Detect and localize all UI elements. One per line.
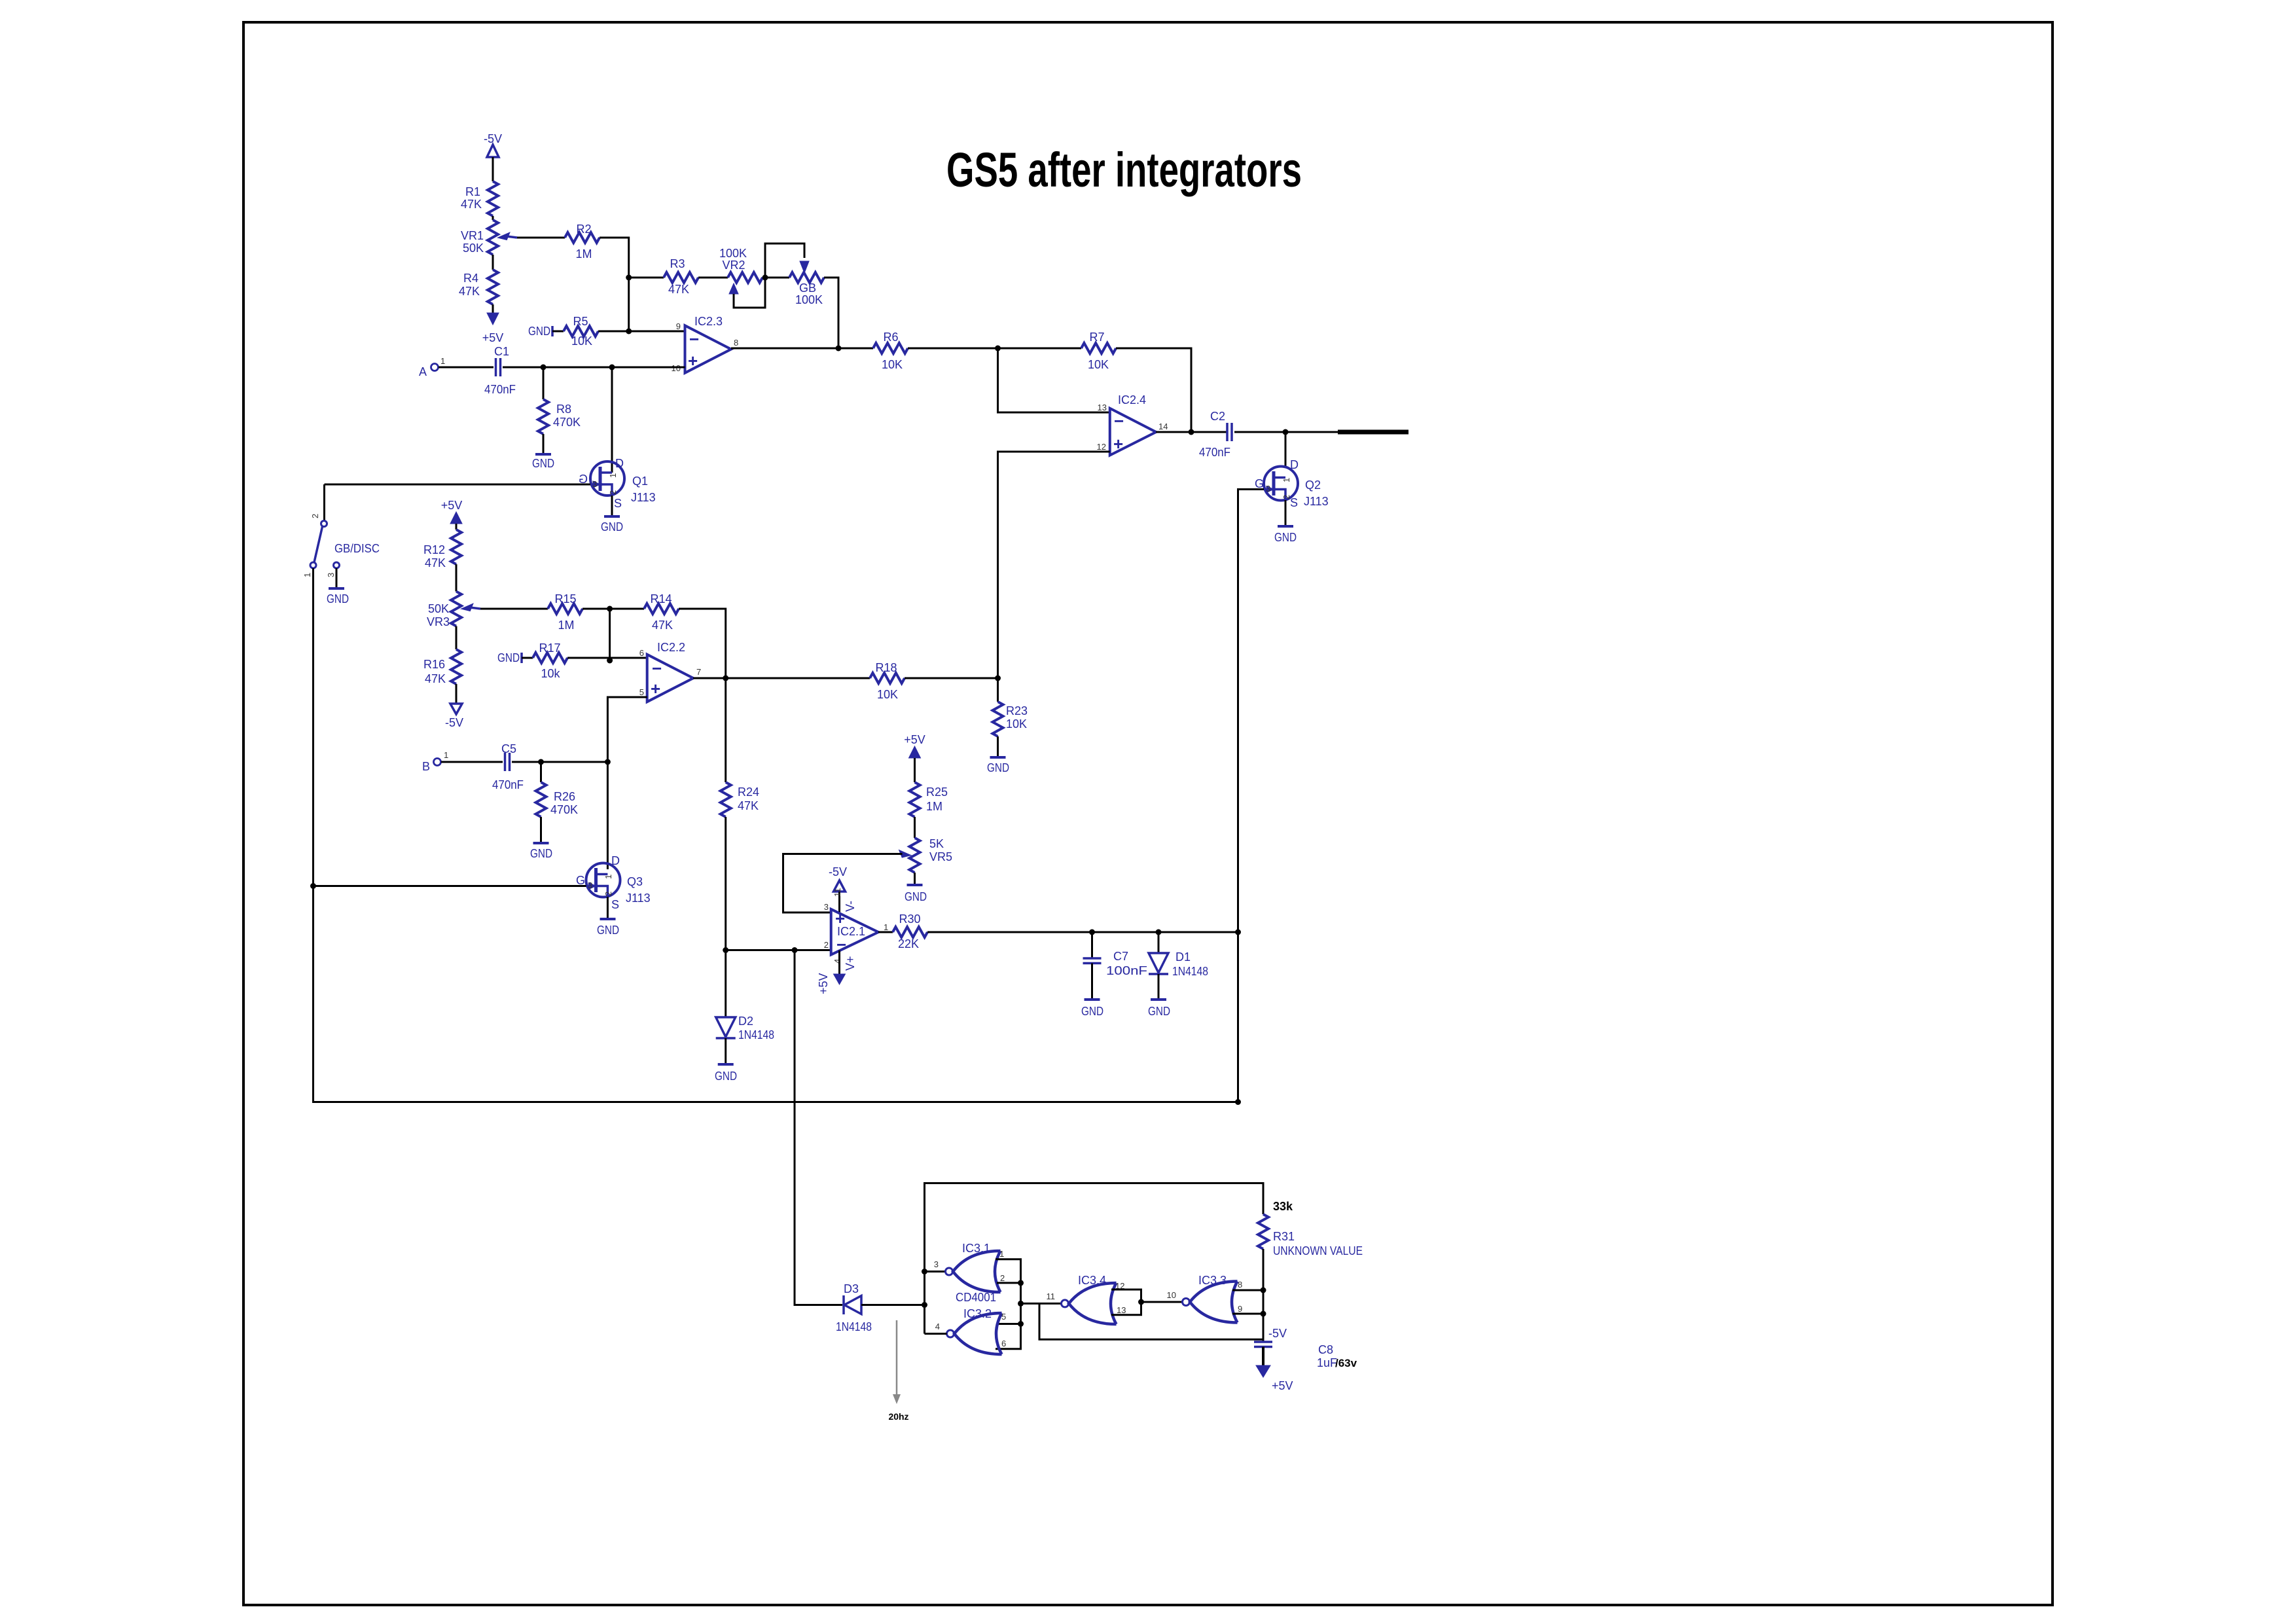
svg-text:4: 4 [935,1322,940,1331]
ground tick for R5 [528,325,552,338]
wire R18 to node [905,677,998,679]
potentiometer VR3 [427,592,480,629]
svg-text:14: 14 [1158,422,1168,431]
wire R24 down to pin2 row [725,817,726,950]
svg-text:GND: GND [601,520,623,533]
pin 11 V- labels [833,888,857,912]
svg-text:VR1: VR1 [461,229,484,242]
nor gate IC3.3 [1167,1274,1243,1323]
node pin9 junction [626,329,632,334]
wire R7 to pin14 node [1116,348,1191,432]
wire tie to IC3.4 input bubble [1021,1303,1062,1305]
svg-text:2: 2 [608,490,618,495]
svg-text:R3: R3 [670,257,685,270]
svg-text:47K: 47K [652,619,673,632]
svg-text:GB/DISC: GB/DISC [334,542,380,555]
svg-text:R6: R6 [883,331,898,344]
svg-text:50K: 50K [428,602,449,615]
svg-text:GS5 after integrators: GS5 after integrators [946,143,1302,197]
svg-text:C7: C7 [1113,950,1128,963]
op-amp IC2.4 [1110,393,1157,456]
wire IC3.1 input bracket [996,1259,1021,1349]
nor gate IC3.1 [934,1242,1005,1292]
svg-text:47K: 47K [738,799,759,812]
wire thick output stub [1338,430,1408,435]
wire R12 to VR3 [456,564,457,592]
ground below C7 [1081,1000,1103,1018]
svg-text:470nF: 470nF [1199,446,1230,459]
node C7 [1089,929,1095,935]
svg-text:7: 7 [696,667,701,677]
svg-text:R12: R12 [423,543,445,556]
wire Q2 source to GND [1285,500,1287,526]
node R30/Q2 gate rail [1235,929,1241,935]
wire R6 to R7 node [908,348,1081,350]
ground below VR5 [905,885,927,903]
svg-text:Q1: Q1 [632,475,648,488]
svg-text:GND: GND [497,651,520,664]
svg-text:D3: D3 [844,1282,859,1295]
svg-text:−: − [1114,411,1124,431]
wire C2 to output [1234,431,1338,433]
wire pin13 branch [998,348,1110,412]
annotation arrow 20hz [888,1320,908,1422]
svg-text:1N4148: 1N4148 [836,1320,872,1333]
ground below Q2 [1274,526,1297,544]
wire gate output rail (to top rail) [925,1183,1264,1334]
svg-text:9: 9 [676,321,681,331]
wire R14 to IC2.2 output node [679,609,726,678]
svg-text:R24: R24 [738,785,759,799]
svg-text:VR3: VR3 [427,615,450,628]
ground below R8 [532,454,554,470]
power -5V below R16 [445,704,463,729]
svg-text:D: D [1290,458,1299,471]
wire IC3.1 pin2 stub [997,1282,1021,1284]
ground below R23 [987,757,1009,774]
svg-text:J113: J113 [631,491,656,504]
capacitor C5 [492,742,524,791]
wire vertical to R3 [629,277,664,279]
svg-text:3: 3 [1266,484,1270,494]
resistor R31 [1258,1200,1363,1257]
capacitor C2 [1199,410,1232,459]
svg-text:R15: R15 [554,592,576,605]
svg-text:IC2.4: IC2.4 [1118,393,1146,406]
svg-text:C2: C2 [1210,410,1225,423]
svg-text:V+: V+ [844,956,857,971]
port B [422,750,448,773]
wire R16 to -5V [456,684,457,704]
svg-text:IC2.1: IC2.1 [837,925,865,938]
svg-text:5: 5 [1001,1312,1006,1322]
wire node to R26 [540,762,542,782]
svg-text:50K: 50K [463,242,484,255]
svg-text:+5V: +5V [817,973,830,994]
op-amp IC2.3 [685,315,732,373]
capacitor C7 [1083,950,1148,977]
wire IC3.3 pin8 stub [1232,1290,1263,1291]
svg-text:V-: V- [844,901,857,912]
ground below D2 [715,1064,737,1083]
svg-text:S: S [614,497,622,510]
svg-text:+: + [1113,434,1123,454]
svg-text:+: + [688,351,698,370]
wire IC2.1 output to R30 [878,931,893,933]
svg-text:10K: 10K [877,688,898,701]
node IC2.2 out [723,676,728,681]
node R18/R23 [995,676,1001,681]
ground below D1 [1148,1000,1170,1018]
wire pin2 row [726,949,831,951]
node Q3 gate / left rail [310,883,316,889]
node pin5 tie [1018,1321,1024,1327]
svg-text:11: 11 [833,888,842,897]
svg-text:470K: 470K [550,803,578,816]
svg-text:1N4148: 1N4148 [738,1028,774,1041]
svg-text:11: 11 [1047,1291,1056,1301]
wire IC2.3 output row [731,348,873,350]
svg-text:J113: J113 [626,892,651,905]
diode D2 [716,1015,774,1041]
node D1 [1156,929,1162,935]
power +5V (below R4, arrow down) [482,313,504,344]
wire +5V to R12 [456,524,457,530]
border frame [243,22,2053,1605]
svg-text:470nF: 470nF [484,383,516,396]
svg-text:+5V: +5V [441,499,463,512]
svg-text:1: 1 [603,875,613,879]
node pin6 junction [607,658,613,664]
wire Q2 drain [1285,432,1287,468]
resistor R7 [1081,331,1116,371]
svg-text:1: 1 [444,750,448,760]
svg-text:5: 5 [639,687,644,697]
node R15/R14 [607,606,613,612]
svg-text:-5V: -5V [829,865,847,878]
wire D3 branch from pin2 node [795,950,842,1305]
wire VR1 to R4 [492,255,494,270]
svg-text:IC3.4: IC3.4 [1078,1274,1106,1287]
node VR2 right junction [762,275,768,281]
svg-text:R23: R23 [1006,704,1028,717]
wire C5 to Q3 drain column [512,761,607,763]
svg-text:12: 12 [1097,442,1106,452]
wire R8 to GND [543,434,545,454]
node pin9 [1261,1311,1266,1317]
svg-text:9: 9 [1238,1304,1242,1314]
wire IC3.4 input bracket [1111,1290,1141,1315]
svg-text:2: 2 [1282,495,1291,499]
wire switch pin3 to GND [336,568,338,588]
resistor R14 [644,592,679,632]
svg-text:VR5: VR5 [929,850,952,863]
ground below switch [327,588,349,605]
wire D1 to GND [1158,974,1160,1000]
svg-text:R17: R17 [539,641,560,655]
svg-text:8: 8 [734,338,738,348]
wire Q2 gate [1238,490,1265,1102]
node R24/pin2 [723,947,728,953]
ground below Q1 [601,516,623,533]
svg-text:1: 1 [302,573,312,577]
wire node to R23 [997,678,999,702]
svg-text:10: 10 [1167,1290,1176,1300]
svg-text:1N4148: 1N4148 [1172,965,1208,978]
resistor R15 [548,592,583,632]
wire R15 to node [583,608,644,610]
svg-text:Q2: Q2 [1305,478,1321,492]
svg-text:R1: R1 [465,185,480,198]
wire node down to R17 row [609,609,611,660]
wire C7 stub [1091,932,1093,958]
wire IC3.2 pin5 stub [997,1323,1021,1325]
svg-text:S: S [611,898,619,911]
resistor R3 [664,257,698,296]
svg-text:+5V: +5V [482,331,504,344]
wire C8 to +5V [1262,1347,1265,1366]
nor gate IC3.4 [1047,1274,1126,1324]
svg-text:10K: 10K [571,334,592,348]
svg-text:1: 1 [608,473,618,478]
svg-text:IC3.3: IC3.3 [1198,1274,1227,1287]
wire D1 stub [1158,932,1160,953]
svg-text:GND: GND [327,592,349,605]
node C2/Q2 [1283,429,1289,435]
svg-text:R5: R5 [573,315,588,328]
wire R23 to GND [997,736,999,757]
wire Q1 source to GND [611,496,613,516]
transistor Q1 [579,457,656,510]
svg-text:10K: 10K [882,358,903,371]
switch GB/DISC [302,514,380,577]
svg-text:1: 1 [1282,478,1291,482]
wire R30 output row [927,931,1238,933]
wire gate row down to switch pin2 [323,484,325,520]
svg-text:2: 2 [310,514,320,518]
svg-text:GND: GND [532,457,554,470]
resistor R12 [423,530,461,569]
pin 4 V+ labels [833,956,857,971]
wire R5 to pin9 node [598,331,685,333]
resistor R1 [461,181,498,216]
wire loop above GB [765,244,804,278]
node A/R8 [541,365,547,370]
svg-text:−: − [652,659,662,678]
svg-text:GB: GB [799,281,816,295]
power +5V above R25 [904,733,925,758]
wire D2 to GND [725,1038,726,1064]
ground below R26 [530,843,552,860]
wire Q3 gate row [313,885,586,887]
power +5V below C8 [1256,1365,1293,1392]
potentiometer VR5 [900,837,953,873]
potentiometer GB [789,261,824,306]
wire node to R8 [543,367,545,399]
svg-text:-5V: -5V [1268,1327,1287,1340]
svg-text:D: D [611,854,620,867]
svg-text:100nF: 100nF [1106,964,1147,977]
wire R25 to VR5 [914,817,916,838]
wire B to C5 [441,761,503,763]
svg-text:47K: 47K [459,285,480,298]
node B/Q3 [605,759,611,765]
svg-text:3: 3 [824,902,829,912]
resistor R16 [423,649,461,685]
svg-text:R26: R26 [554,790,575,803]
svg-text:R7: R7 [1089,331,1104,344]
transistor Q2 [1255,458,1329,509]
svg-text:22K: 22K [898,937,919,950]
svg-text:3: 3 [588,880,592,890]
svg-text:13: 13 [1098,403,1107,412]
node A/Q1 [609,365,615,370]
svg-text:100K: 100K [795,293,823,306]
wire GND tick to R5 [552,331,564,333]
wire VR3 wiper to R15 [480,608,548,610]
power +5V below IC2.1 [817,973,846,994]
svg-text:B: B [422,760,430,773]
svg-text:100K: 100K [719,247,747,260]
resistor R8 [538,399,581,434]
resistor R18 [870,661,905,701]
svg-text:C8: C8 [1318,1343,1333,1356]
svg-text:6: 6 [1001,1339,1006,1348]
svg-text:10K: 10K [1006,717,1027,731]
potentiometer VR1 [461,220,517,255]
svg-text:13: 13 [1117,1305,1126,1315]
svg-text:R14: R14 [650,592,672,605]
node pin8 [1261,1288,1266,1293]
power -5V (top of R1) [484,132,502,157]
node R7/IC2.4 branch [995,346,1001,352]
resistor R24 [721,782,759,817]
svg-text:4: 4 [833,959,842,964]
node B/R26 [538,759,544,765]
wire D2 stub [725,950,726,1018]
svg-text:1: 1 [999,1249,1004,1259]
wire IC2.2 out node down to R24 [725,678,726,782]
wire tie to IC3.3 bubble [1141,1301,1183,1303]
svg-text:R25: R25 [926,785,948,799]
node pin2/D3 branch [792,947,798,953]
svg-text:1M: 1M [558,619,574,632]
node IC3.4 tie [1138,1299,1144,1305]
nor gate IC3.2 [935,1307,1006,1354]
wire Q1 gate row [325,484,591,486]
svg-text:GND: GND [597,924,619,937]
svg-text:+: + [651,679,660,698]
resistor R26 [536,782,579,817]
resistor R30 [893,912,927,950]
resistor R5 [564,315,598,348]
svg-text:47K: 47K [668,283,689,296]
svg-text:1: 1 [884,922,888,932]
wire C1 to pin10 [503,367,685,369]
wire IC3.2 output stub [925,1333,947,1335]
svg-text:R8: R8 [556,403,571,416]
potentiometer VR2 [719,247,762,294]
svg-text:GND: GND [528,325,550,338]
svg-text:CD4001: CD4001 [956,1291,996,1304]
svg-text:+5V: +5V [904,733,925,746]
svg-text:470nF: 470nF [492,778,524,791]
svg-text:R16: R16 [423,658,445,671]
svg-text:47K: 47K [461,198,482,211]
node R3 tee [626,275,632,281]
wire R2 to vertical [600,238,629,331]
svg-text:R4: R4 [463,272,478,285]
power -5V above IC2.1 [829,865,847,892]
wire R3 to VR2 [698,277,728,279]
svg-text:D1: D1 [1175,950,1191,964]
svg-text:2: 2 [603,892,613,896]
svg-text:8: 8 [1238,1280,1242,1290]
wire V- pin [838,892,840,914]
node D3/gate outputs [922,1302,927,1308]
svg-text:/63v: /63v [1335,1357,1357,1369]
node pin14/C2 [1189,429,1194,435]
svg-text:10K: 10K [1088,358,1109,371]
svg-text:3: 3 [326,573,336,577]
svg-text:UNKNOWN VALUE: UNKNOWN VALUE [1273,1244,1363,1257]
wire C7 to GND [1091,964,1093,1000]
svg-text:10k: 10k [541,667,560,680]
svg-text:VR2: VR2 [722,259,745,272]
wire V+ pin [838,950,840,974]
svg-text:20hz: 20hz [888,1411,908,1422]
wire IC3.1 output stub [925,1271,946,1272]
resistor R17 [533,641,567,680]
diode D3 [836,1282,872,1333]
svg-text:1uF: 1uF [1317,1356,1337,1369]
node GB/output [836,346,842,352]
wire VR5 to GND [914,873,916,885]
svg-text:D: D [615,457,624,470]
node pin11 tie [1018,1301,1024,1307]
wire R1 to VR1 [492,216,494,220]
svg-text:470K: 470K [553,416,581,429]
wire R17 to pin6 [567,657,647,659]
wire -5V to R1 [492,157,494,181]
svg-text:3: 3 [934,1259,939,1269]
transistor Q3 [576,854,651,911]
wire GND tick to R17 [522,657,533,659]
op-amp IC2.1 [831,909,878,955]
svg-text:1M: 1M [575,247,592,261]
svg-text:1M: 1M [926,800,942,813]
wire GB right lead down to output row [824,278,838,348]
svg-text:3: 3 [592,479,597,489]
resistor R6 [873,331,908,371]
ground below Q3 [597,919,619,937]
ground tick for R17 [497,651,522,664]
svg-text:R31: R31 [1273,1230,1295,1243]
wire R31 down through pins to C8 [1263,1249,1265,1342]
svg-text:GND: GND [1148,1005,1170,1018]
resistor R25 [910,782,948,817]
port A [419,356,445,378]
svg-text:D2: D2 [738,1015,753,1028]
op-amp IC2.2 [647,641,693,702]
power +5V above R12 [441,499,463,524]
svg-text:33k: 33k [1273,1200,1293,1213]
svg-text:GND: GND [1274,531,1297,544]
svg-text:-5V: -5V [445,716,463,729]
wire D3 to gates input node [861,1304,925,1306]
wire VR2 to GB [762,277,789,279]
svg-text:1: 1 [440,356,445,366]
